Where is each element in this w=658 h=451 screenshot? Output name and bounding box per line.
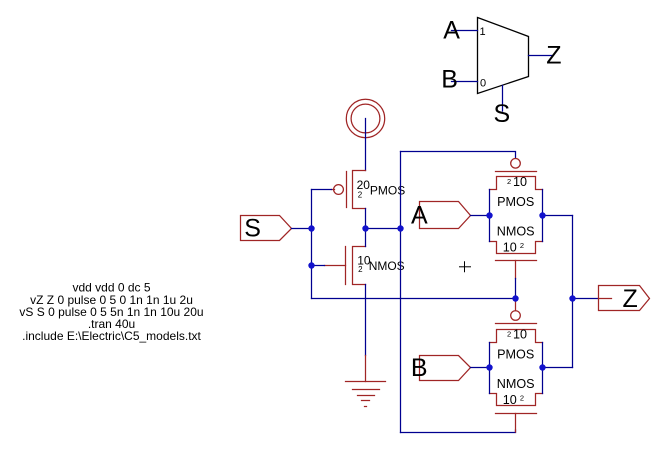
svg-text:Z: Z: [546, 42, 561, 70]
wire S tag to junction: [292, 228, 312, 230]
svg-text:10: 10: [513, 327, 527, 341]
junction dot inverter output: [362, 225, 368, 231]
svg-text:2: 2: [358, 191, 363, 200]
wire A tag to tgate: [471, 215, 490, 217]
svg-text:B: B: [441, 66, 458, 94]
power vdd symbol: [346, 99, 384, 137]
wire S vertical: [311, 190, 313, 299]
svg-text:S: S: [494, 100, 511, 128]
wire TGA internal right: [542, 190, 544, 242]
svg-text:2: 2: [358, 265, 363, 274]
wire TGA right to Z rail: [543, 215, 573, 217]
svg-text:10: 10: [503, 241, 517, 255]
wire Sbar top run: [401, 152, 516, 158]
wire TGB internal right: [542, 343, 544, 394]
svg-text:S: S: [244, 215, 261, 243]
svg-text:B: B: [411, 354, 428, 382]
svg-text:0: 0: [480, 78, 486, 90]
svg-text:A: A: [411, 202, 428, 230]
wire Z rail to Z tag: [573, 298, 599, 300]
cursor cross marker: [460, 262, 471, 272]
junction dot S input: [308, 225, 314, 231]
wire B tag to tgate: [471, 367, 490, 369]
svg-text:2: 2: [520, 241, 524, 250]
transistor PMOS 20/2 (inverter pull-up): [332, 171, 366, 209]
junction dot Z rail: [569, 295, 575, 301]
wire B to mux pin 0: [452, 81, 478, 83]
spice deck annotation: [19, 281, 203, 343]
svg-text:NMOS: NMOS: [497, 377, 535, 391]
wire S to NMOS gate: [312, 265, 325, 267]
A input tag: [420, 202, 471, 229]
svg-text:2: 2: [520, 394, 524, 403]
transmission gate TGB (PMOS/NMOS 10/2): [490, 302, 543, 433]
junction dot TGB left: [486, 364, 492, 370]
wire mux select S: [502, 86, 504, 112]
junction dot S run at TG gates: [512, 295, 518, 301]
svg-text:Z: Z: [623, 285, 638, 313]
svg-text:PMOS: PMOS: [497, 348, 534, 362]
Z output tag: [599, 286, 650, 311]
wire Sbar vertical: [400, 152, 402, 433]
wire NMOS drain up: [365, 229, 367, 247]
svg-text:10: 10: [503, 393, 517, 407]
wire TGA gate stem to S run: [515, 279, 517, 299]
svg-text:A: A: [443, 17, 460, 45]
junction dot TGB right: [539, 364, 545, 370]
svg-text:1: 1: [480, 26, 486, 38]
ground symbol: [346, 356, 386, 407]
svg-text:NMOS: NMOS: [497, 225, 535, 239]
wire TGA internal left: [489, 190, 491, 242]
junction dot S to NMOS gate: [308, 262, 314, 268]
mux M1 body: [478, 18, 529, 94]
wire A to mux pin 1: [452, 30, 478, 32]
svg-text:10: 10: [513, 175, 527, 189]
svg-text:NMOS: NMOS: [369, 259, 405, 273]
wire S horizontal run to tgates: [312, 298, 516, 300]
wire mux output Z: [529, 55, 553, 57]
wire vdd to PMOS source: [365, 119, 367, 171]
svg-text:2: 2: [507, 330, 511, 339]
wire TGB right to Z rail: [543, 367, 573, 369]
Z tag pin stub: [599, 298, 612, 300]
junction dot Sbar rail: [397, 225, 403, 231]
wire Z rail vertical: [572, 216, 574, 368]
wire TGB internal left: [489, 343, 491, 394]
junction dot TGA right: [539, 212, 545, 218]
svg-text:.include E:\Electric\C5_models: .include E:\Electric\C5_models.txt: [22, 329, 201, 343]
svg-text:2: 2: [507, 177, 511, 186]
junction dot TGA left: [486, 212, 492, 218]
S input tag: [241, 216, 292, 241]
wire Sbar bottom run: [401, 430, 516, 433]
svg-text:PMOS: PMOS: [497, 195, 534, 209]
transistor NMOS 10/2 (inverter pull-down): [325, 247, 366, 285]
wire output row: [366, 228, 401, 230]
wire S to PMOS gate: [312, 189, 332, 191]
B input tag: [420, 356, 471, 381]
transmission gate TGA (PMOS/NMOS 10/2): [490, 159, 543, 279]
wire PMOS drain to output node: [365, 209, 367, 229]
wire NMOS source to ground: [365, 285, 367, 356]
